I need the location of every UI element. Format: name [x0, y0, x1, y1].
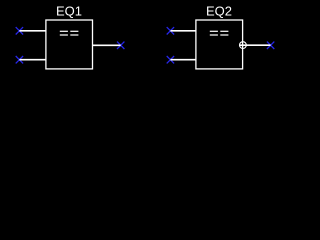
comparator U1 body box [46, 20, 93, 69]
node marker X at U2 input A [167, 27, 174, 34]
wire U2 output [239, 44, 270, 46]
comparator U2 body box [196, 20, 243, 69]
wire U1 input A [19, 30, 46, 32]
node marker X at U1 input B [16, 56, 23, 63]
node marker X at U1 input A [16, 27, 23, 34]
comparator U2 value label == [210, 31, 229, 36]
node marker X at U1 output [117, 42, 124, 49]
origin marker circle on U2 output pin [240, 42, 247, 49]
svg-text:EQ1: EQ1 [56, 3, 82, 18]
node marker X at U2 input B [167, 56, 174, 63]
wire U1 output [92, 44, 121, 46]
wire U2 input A [170, 30, 196, 32]
node marker X at U2 output [267, 42, 274, 49]
svg-text:EQ2: EQ2 [206, 3, 232, 18]
comparator U1 value label == [60, 31, 79, 36]
wire U1 input B [19, 59, 46, 61]
wire U2 input B [170, 59, 196, 61]
